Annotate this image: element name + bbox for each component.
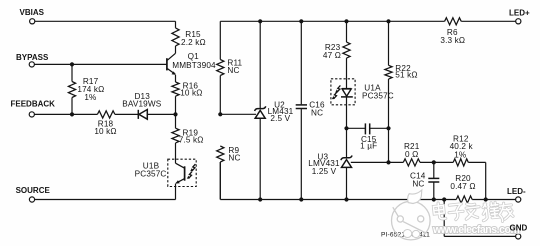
svg-text:MMBT3904: MMBT3904 <box>172 61 216 70</box>
resistor R21 <box>403 142 420 166</box>
terminal BYPASS <box>16 53 49 67</box>
wire R20 to LED- <box>472 199 515 201</box>
node BYPASS/R17 <box>70 62 74 66</box>
resistor R18 <box>94 111 116 136</box>
shunt regulator U3 LMV431 <box>308 128 352 199</box>
transistor Q1 <box>167 52 216 75</box>
watermark blob <box>403 230 420 238</box>
wire SOURCE <box>35 199 176 201</box>
svg-text:1%: 1% <box>454 150 466 159</box>
node top rail/C16 <box>299 19 303 23</box>
terminal FEEDBACK <box>11 100 56 117</box>
resistor R17 <box>68 64 104 114</box>
svg-text:47 Ω: 47 Ω <box>323 51 341 60</box>
capacitor C14 <box>410 162 439 199</box>
wire top rail <box>220 20 444 22</box>
resistor R11 <box>217 21 243 114</box>
node R11/R9/U2ref <box>218 112 222 116</box>
wire VBIAS to R15 <box>35 20 176 22</box>
node R16/D13/R19 <box>173 112 177 116</box>
wire U1B emitter to SOURCE rail <box>175 184 177 200</box>
shunt regulator U2 LM431 <box>255 21 294 199</box>
wire FEEDBACK to R18 <box>34 113 97 115</box>
svg-text:LED+: LED+ <box>509 9 530 18</box>
wire GND branch <box>444 200 515 237</box>
diode D13 <box>122 92 162 119</box>
resistor R15 <box>172 21 206 53</box>
wire R6 to LED+ <box>461 20 516 22</box>
terminal GND <box>516 234 521 239</box>
svg-text:1 µF: 1 µF <box>360 141 377 150</box>
node top rail/R23 <box>344 19 348 23</box>
wire R21 to C14 node <box>420 161 453 163</box>
optocoupler U1A PC357C <box>331 79 394 105</box>
svg-text:SOURCE: SOURCE <box>16 186 51 195</box>
wire node to U2 ref <box>220 113 256 115</box>
node FB/R22 <box>386 160 390 164</box>
svg-text:PC357C: PC357C <box>135 170 167 179</box>
svg-text:LED-: LED- <box>507 187 526 196</box>
node bottom rail/GND branch <box>442 197 446 201</box>
watermark logo circle <box>392 190 431 240</box>
node FEEDBACK/R17 <box>70 112 74 116</box>
wire R22/C15 to FB line <box>388 128 390 162</box>
watermark logo beak <box>408 190 422 203</box>
optocoupler U1B PC357C <box>135 159 197 186</box>
svg-text:Q1: Q1 <box>188 52 200 61</box>
svg-text:NC: NC <box>228 154 240 163</box>
svg-text:www.elecfans.com: www.elecfans.com <box>432 224 519 236</box>
wire R18 to D13 <box>115 113 138 115</box>
node C15 left <box>344 126 348 130</box>
svg-text:51 kΩ: 51 kΩ <box>395 71 417 80</box>
resistor R22 <box>385 21 418 128</box>
resistor R12 <box>450 135 474 166</box>
svg-text:7.5 kΩ: 7.5 kΩ <box>179 135 204 144</box>
node bottom rail/U3 <box>344 197 348 201</box>
svg-text:0 Ω: 0 Ω <box>405 150 418 159</box>
node bottom rail/C14 <box>432 197 436 201</box>
wire U3 ref to R21 <box>351 161 404 163</box>
node top rail/U2 <box>258 19 262 23</box>
svg-text:FEEDBACK: FEEDBACK <box>11 100 56 109</box>
svg-text:2.2 kΩ: 2.2 kΩ <box>181 38 206 47</box>
svg-text:BAV19WS: BAV19WS <box>122 100 162 109</box>
svg-text:NC: NC <box>412 180 424 189</box>
node bottom rail/C16 <box>299 197 303 201</box>
watermark text dianzifashaoyou <box>433 202 446 219</box>
svg-text:10 kΩ: 10 kΩ <box>94 127 116 136</box>
svg-text:2.5 V: 2.5 V <box>270 114 290 123</box>
svg-text:0.47 Ω: 0.47 Ω <box>450 182 475 191</box>
svg-text:BYPASS: BYPASS <box>16 53 49 62</box>
node bottom rail/R12 corner <box>484 197 488 201</box>
node FB/C14 <box>432 160 436 164</box>
svg-text:10 kΩ: 10 kΩ <box>180 89 202 98</box>
svg-text:NC: NC <box>311 108 323 117</box>
wire bottom rail <box>220 162 456 200</box>
resistor R9 <box>217 146 241 200</box>
terminal LED- <box>507 187 526 202</box>
node C15 right <box>386 126 390 130</box>
resistor R20 <box>450 174 475 203</box>
resistor R19 <box>172 114 204 163</box>
capacitor C16 <box>296 21 325 199</box>
svg-text:GND: GND <box>510 224 528 233</box>
svg-text:NC: NC <box>227 66 239 75</box>
svg-text:VBIAS: VBIAS <box>20 8 45 17</box>
node bottom rail/U2 <box>258 197 262 201</box>
terminal VBIAS <box>20 8 45 24</box>
capacitor C15 <box>347 123 389 150</box>
terminal LED+ <box>509 9 530 24</box>
wire U1A to C15 node <box>346 105 348 129</box>
resistor R23 <box>323 21 350 79</box>
wire R12 to corner <box>468 162 485 199</box>
resistor R6 <box>440 18 465 45</box>
svg-text:3.3 kΩ: 3.3 kΩ <box>440 36 465 45</box>
label PI-6521-061411 <box>381 232 430 239</box>
terminal SOURCE <box>16 186 51 202</box>
node top rail/R22 <box>386 19 390 23</box>
resistor R16 <box>172 75 203 115</box>
wire D13 to node <box>147 113 175 115</box>
svg-text:1%: 1% <box>84 93 96 102</box>
svg-text:1.25 V: 1.25 V <box>312 167 337 176</box>
wire BYPASS to Q1 base <box>34 63 166 65</box>
